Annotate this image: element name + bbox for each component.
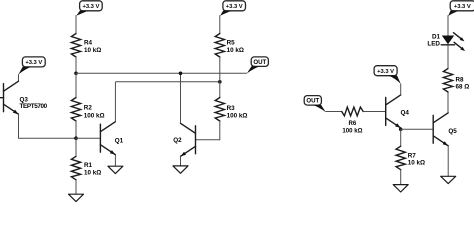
wire R7 to ground: [400, 170, 402, 185]
resistor R8: [443, 69, 452, 93]
output flag OUT right: [304, 96, 326, 113]
svg-text:D1: D1: [432, 33, 441, 40]
wire +3.3V to Q4 collector: [400, 84, 402, 95]
transistor Q1: [100, 122, 115, 155]
node junction Q1 collector / R5 / R3: [218, 80, 222, 84]
svg-text:R5: R5: [227, 39, 236, 46]
svg-text:R6: R6: [349, 120, 357, 127]
svg-text:100 kΩ: 100 kΩ: [227, 113, 248, 120]
resistor R5: [215, 34, 224, 58]
wire Q2 collector riser: [180, 73, 182, 123]
wire Q1 emitter: [114, 155, 116, 167]
wire Q3 emitter to node B: [19, 114, 76, 138]
svg-text:TEPT5700: TEPT5700: [20, 103, 48, 110]
svg-text:LED: LED: [427, 41, 440, 48]
resistor R4: [71, 34, 80, 58]
wire node A to R2: [75, 73, 77, 97]
wire +3.3V to R4: [75, 15, 77, 33]
transistor Q2 mirrored: [181, 123, 196, 156]
svg-text:+3.3 V: +3.3 V: [454, 4, 471, 10]
wire net A horizontal to OUT: [76, 72, 247, 74]
wire node to R7: [400, 129, 402, 146]
node B junction R2/R1/Q1 base: [74, 136, 78, 140]
power flag +3.3V at Q3 collector: [18, 57, 45, 75]
wire R2 to node B: [75, 121, 77, 138]
LED D1: [441, 33, 465, 51]
svg-text:Q5: Q5: [448, 128, 457, 135]
svg-text:OUT: OUT: [306, 98, 319, 105]
wire R1 to ground: [75, 180, 77, 194]
wire node to Q5 base: [401, 128, 433, 130]
wire Q1 base: [76, 137, 100, 139]
resistor R2: [71, 98, 80, 122]
node A junction R4/R2/Q2 collector: [74, 72, 78, 76]
node Q2 collector on net A: [179, 72, 183, 76]
wire Q4 emitter to node: [400, 128, 402, 129]
svg-text:+3.3 V: +3.3 V: [82, 4, 99, 10]
phototransistor Q3 TEPT5700: [0, 81, 19, 114]
wire Q1 collector riser: [114, 82, 116, 122]
wire LED anode: [447, 15, 449, 35]
ground below Q5: [441, 176, 456, 183]
wire node B to R1: [75, 138, 77, 156]
svg-text:100 kΩ: 100 kΩ: [84, 113, 105, 120]
svg-text:Q1: Q1: [115, 137, 124, 144]
ground below Q1: [108, 166, 123, 173]
wire R6 to Q4 base: [363, 111, 385, 113]
svg-text:R4: R4: [84, 39, 93, 46]
wire Q5 collector riser: [447, 92, 449, 113]
wire R5 to R3 vertical: [219, 57, 221, 98]
svg-text:68 Ω: 68 Ω: [456, 84, 470, 91]
svg-text:R3: R3: [227, 105, 236, 112]
power flag +3.3V at R4: [76, 1, 102, 16]
power flag +3.3V at Q4: [374, 66, 401, 84]
svg-text:10 kΩ: 10 kΩ: [227, 47, 244, 54]
power flag +3.3V at LED: [448, 1, 474, 16]
wire Q2 emitter: [180, 156, 182, 166]
wire R4 to node A: [75, 57, 77, 73]
wire OUT to R6: [326, 111, 342, 113]
node junction Q4 emitter / R7 / Q5 base: [399, 128, 403, 132]
ground below Q2: [173, 166, 188, 173]
wire +3.3V to R5: [219, 15, 221, 33]
resistor R1: [71, 156, 80, 180]
svg-text:Q2: Q2: [173, 137, 182, 144]
resistor R6: [342, 107, 364, 116]
ground below R7: [393, 185, 408, 192]
svg-text:R2: R2: [84, 105, 93, 112]
wire net OUT1 horizontal: [115, 81, 219, 83]
svg-text:Q4: Q4: [401, 109, 410, 116]
svg-text:+3.3 V: +3.3 V: [226, 4, 243, 10]
resistor R3: [215, 98, 224, 122]
svg-text:+3.3 V: +3.3 V: [377, 69, 394, 75]
transistor Q4: [386, 95, 401, 128]
svg-text:10 kΩ: 10 kΩ: [84, 170, 101, 177]
svg-text:10 kΩ: 10 kΩ: [408, 160, 425, 167]
svg-text:+3.3 V: +3.3 V: [25, 60, 42, 66]
svg-text:R1: R1: [84, 162, 93, 169]
ground below R1: [69, 194, 84, 201]
output flag OUT left: [247, 57, 269, 74]
resistor R7: [396, 146, 405, 170]
svg-text:100 kΩ: 100 kΩ: [342, 127, 362, 134]
transistor Q5: [433, 113, 448, 146]
wire LED cathode to R8: [447, 45, 449, 69]
power flag +3.3V at R5: [220, 1, 245, 16]
wire Q3 collector: [18, 74, 20, 81]
svg-text:R8: R8: [456, 76, 465, 83]
svg-text:10 kΩ: 10 kΩ: [84, 47, 101, 54]
wire Q5 emitter: [447, 146, 449, 177]
svg-text:OUT: OUT: [253, 59, 266, 66]
wire R3 to Q2 base: [196, 121, 220, 140]
svg-text:R7: R7: [408, 152, 417, 159]
